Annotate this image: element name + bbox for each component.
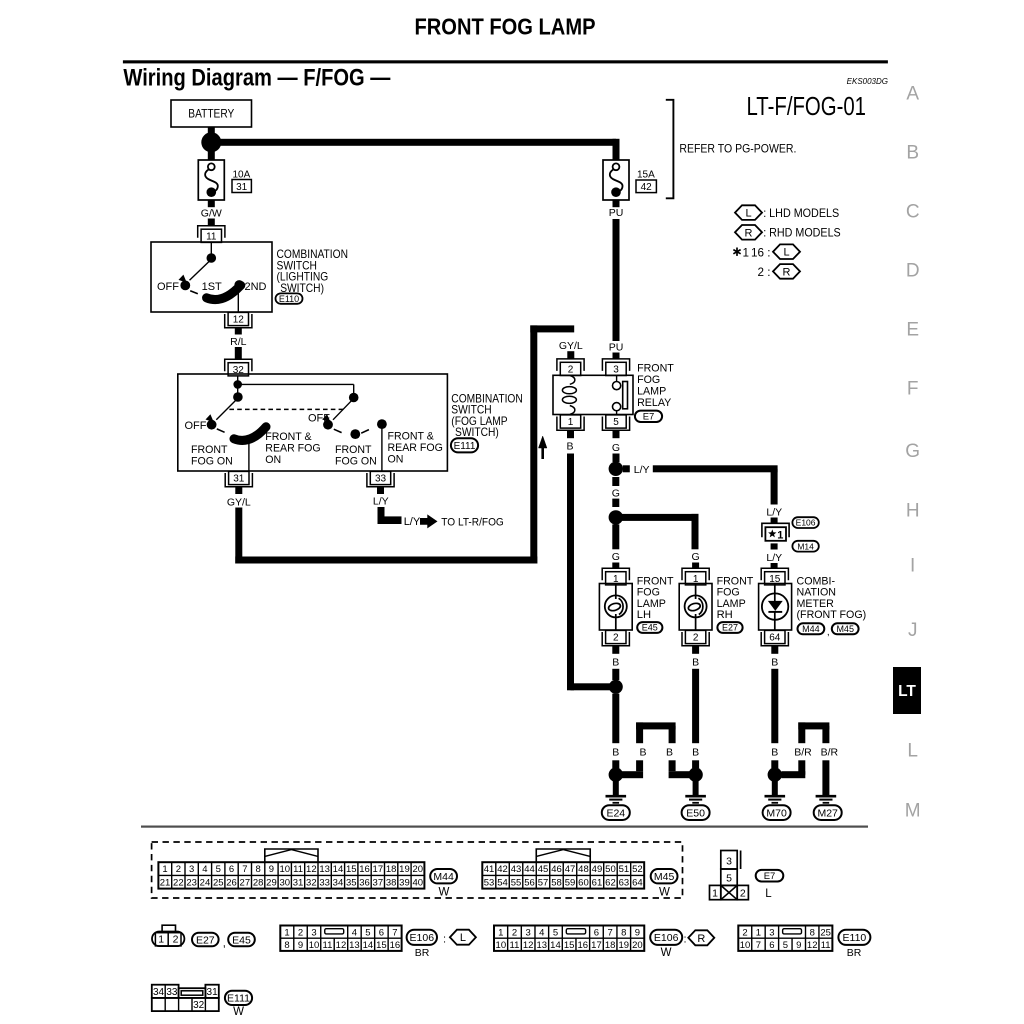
svg-text:3: 3 [769, 927, 774, 938]
svg-text:LH: LH [637, 609, 651, 621]
svg-text:REAR FOG: REAR FOG [388, 442, 443, 454]
svg-text:25: 25 [213, 877, 224, 888]
svg-text:6: 6 [229, 864, 234, 875]
svg-text:W: W [438, 886, 449, 898]
svg-text:7: 7 [242, 864, 247, 875]
svg-text:B: B [906, 142, 919, 163]
svg-text:B: B [639, 746, 646, 758]
svg-text:39: 39 [399, 877, 410, 888]
svg-text:2: 2 [742, 927, 747, 938]
svg-text:M45: M45 [654, 871, 675, 883]
svg-text:12: 12 [233, 315, 245, 326]
svg-text:NATION: NATION [797, 587, 837, 599]
svg-text:61: 61 [592, 877, 603, 888]
svg-text:42: 42 [497, 864, 508, 875]
svg-text:M27: M27 [817, 807, 838, 819]
svg-text:10: 10 [740, 940, 751, 951]
svg-text:E7: E7 [764, 871, 776, 882]
svg-text:OFF: OFF [157, 281, 179, 293]
svg-text:ON: ON [265, 454, 281, 466]
svg-text:L/Y: L/Y [634, 464, 650, 476]
svg-text:FRONT: FRONT [335, 444, 372, 456]
svg-text:34: 34 [153, 987, 165, 998]
svg-text:40: 40 [412, 877, 423, 888]
svg-text:4: 4 [539, 927, 544, 938]
svg-text:34: 34 [333, 877, 344, 888]
svg-text:E111: E111 [454, 441, 476, 452]
svg-text:2ND: 2ND [244, 281, 266, 293]
svg-text:L/Y: L/Y [766, 552, 782, 564]
svg-text:5: 5 [613, 417, 619, 428]
svg-text:7: 7 [392, 927, 397, 938]
svg-text:LT: LT [898, 683, 916, 700]
svg-text:E110: E110 [843, 932, 867, 944]
svg-text:(FRONT FOG): (FRONT FOG) [797, 609, 867, 621]
svg-text:3: 3 [613, 365, 619, 376]
svg-text:B: B [666, 746, 673, 758]
svg-text:D: D [906, 260, 920, 281]
svg-text:G: G [692, 551, 700, 563]
svg-text:2: 2 [298, 927, 303, 938]
svg-text:B: B [771, 746, 778, 758]
svg-text:B: B [612, 657, 619, 669]
svg-text:26: 26 [226, 877, 237, 888]
svg-text:L: L [765, 888, 772, 900]
svg-text:B: B [566, 441, 573, 453]
svg-text:1: 1 [158, 934, 164, 946]
svg-text:FOG: FOG [717, 587, 740, 599]
svg-text:4: 4 [202, 864, 207, 875]
svg-text:57: 57 [538, 877, 549, 888]
svg-text:54: 54 [497, 877, 508, 888]
svg-text:43: 43 [511, 864, 522, 875]
svg-text:3: 3 [189, 864, 194, 875]
svg-text:45: 45 [538, 864, 549, 875]
svg-text:51: 51 [619, 864, 630, 875]
svg-text:31: 31 [236, 182, 248, 193]
svg-text:L/Y: L/Y [373, 496, 389, 508]
svg-text:E110: E110 [279, 294, 299, 304]
svg-text:15: 15 [564, 940, 575, 951]
svg-text:W: W [661, 947, 672, 959]
svg-text:B: B [771, 657, 778, 669]
svg-text:55: 55 [511, 877, 522, 888]
svg-text:FRONT: FRONT [637, 363, 674, 375]
svg-text:16: 16 [578, 940, 589, 951]
svg-text:M14: M14 [797, 541, 814, 551]
svg-text:G/W: G/W [201, 207, 222, 219]
svg-text:1ST: 1ST [202, 281, 222, 293]
svg-text:49: 49 [592, 864, 603, 875]
svg-text:15: 15 [376, 940, 387, 951]
svg-text:12: 12 [306, 864, 317, 875]
svg-text:33: 33 [375, 474, 387, 485]
svg-text:1: 1 [568, 417, 574, 428]
svg-text:LAMP: LAMP [637, 386, 666, 398]
svg-text:1: 1 [743, 246, 750, 259]
svg-text:BR: BR [415, 947, 430, 959]
svg-text:L/Y: L/Y [404, 516, 421, 528]
svg-text:37: 37 [373, 877, 384, 888]
svg-text:TO LT-R/FOG: TO LT-R/FOG [441, 516, 504, 528]
svg-text:E27: E27 [722, 623, 738, 633]
svg-text:16 :: 16 : [751, 246, 771, 259]
svg-text:,: , [223, 937, 226, 949]
svg-text:3: 3 [311, 927, 316, 938]
svg-text:1: 1 [777, 529, 783, 541]
svg-text:FOG: FOG [637, 587, 660, 599]
svg-text:10: 10 [496, 940, 507, 951]
svg-text:B: B [692, 657, 699, 669]
svg-text:BR: BR [847, 947, 862, 959]
svg-text:15: 15 [346, 864, 357, 875]
svg-text:38: 38 [386, 877, 397, 888]
svg-text:9: 9 [298, 940, 303, 951]
svg-text::: : [684, 933, 687, 945]
svg-text:2: 2 [512, 927, 517, 938]
svg-text:10: 10 [309, 940, 320, 951]
svg-text:REFER TO PG-POWER.: REFER TO PG-POWER. [679, 143, 796, 156]
svg-text:15A: 15A [637, 170, 655, 181]
svg-text:FRONT &: FRONT & [265, 431, 311, 443]
svg-text:FRONT: FRONT [717, 576, 754, 588]
svg-text:B: B [612, 746, 619, 758]
svg-text:14: 14 [333, 864, 344, 875]
svg-text:G: G [612, 442, 620, 454]
svg-text:63: 63 [619, 877, 630, 888]
svg-text:E7: E7 [643, 412, 655, 423]
svg-text:36: 36 [359, 877, 370, 888]
svg-text:L/Y: L/Y [766, 506, 782, 518]
svg-text:10: 10 [279, 864, 290, 875]
svg-text:M44: M44 [433, 871, 454, 883]
svg-text:17: 17 [373, 864, 384, 875]
svg-text:2: 2 [693, 633, 699, 644]
svg-text:18: 18 [605, 940, 616, 951]
svg-text:R: R [783, 266, 791, 278]
svg-text:12: 12 [523, 940, 534, 951]
svg-text:METER: METER [797, 598, 834, 610]
svg-text:FRONT &: FRONT & [388, 431, 434, 443]
svg-text:SWITCH): SWITCH) [455, 426, 499, 439]
svg-text:LAMP: LAMP [717, 598, 746, 610]
svg-text:16: 16 [390, 940, 401, 951]
svg-text:32: 32 [193, 1000, 205, 1011]
svg-text:22: 22 [173, 877, 184, 888]
svg-text:7: 7 [607, 927, 612, 938]
svg-text:: LHD MODELS: : LHD MODELS [763, 207, 839, 220]
svg-text:E106: E106 [410, 932, 435, 944]
svg-text:11: 11 [821, 940, 831, 951]
svg-text:13: 13 [537, 940, 548, 951]
svg-text:47: 47 [565, 864, 576, 875]
svg-text:11: 11 [293, 864, 303, 875]
svg-text:C: C [906, 201, 920, 222]
svg-text:GY/L: GY/L [559, 340, 583, 352]
svg-text:6: 6 [769, 940, 774, 951]
svg-text:L: L [745, 208, 751, 220]
svg-text:G: G [612, 487, 620, 499]
svg-text:,: , [827, 627, 830, 638]
svg-text:56: 56 [524, 877, 535, 888]
svg-text:2: 2 [173, 934, 179, 946]
svg-text:BATTERY: BATTERY [188, 108, 234, 120]
svg-text:59: 59 [565, 877, 576, 888]
svg-text:64: 64 [632, 877, 643, 888]
svg-text:30: 30 [279, 877, 290, 888]
svg-text:R: R [745, 227, 753, 239]
svg-text:E45: E45 [232, 934, 251, 946]
svg-text:GY/L: GY/L [227, 497, 251, 509]
svg-text:18: 18 [386, 864, 397, 875]
svg-text:2: 2 [176, 864, 181, 875]
svg-text:H: H [906, 500, 920, 521]
svg-text:62: 62 [605, 877, 616, 888]
svg-text:1: 1 [284, 927, 289, 938]
svg-text:M: M [905, 801, 921, 822]
svg-text:PU: PU [609, 341, 624, 353]
svg-text:1: 1 [162, 864, 167, 875]
svg-text:24: 24 [200, 877, 211, 888]
svg-text:REAR FOG: REAR FOG [265, 443, 320, 455]
svg-text:FOG ON: FOG ON [335, 455, 377, 467]
svg-text:44: 44 [524, 864, 535, 875]
svg-text:M45: M45 [836, 624, 854, 634]
svg-text:28: 28 [253, 877, 264, 888]
svg-text:FRONT FOG LAMP: FRONT FOG LAMP [415, 14, 596, 40]
svg-text:14: 14 [363, 940, 374, 951]
svg-text:13: 13 [319, 864, 330, 875]
svg-text:52: 52 [632, 864, 643, 875]
svg-text:PU: PU [609, 207, 624, 219]
svg-text:F: F [907, 379, 919, 400]
svg-text:27: 27 [240, 877, 251, 888]
svg-text:RELAY: RELAY [637, 397, 672, 409]
svg-text:E: E [906, 320, 919, 341]
svg-text:16: 16 [359, 864, 370, 875]
svg-text:W: W [659, 886, 670, 898]
svg-text:8: 8 [810, 927, 815, 938]
svg-text:I: I [910, 556, 915, 577]
svg-text:8: 8 [621, 927, 626, 938]
svg-text:60: 60 [578, 877, 589, 888]
svg-text:11: 11 [206, 231, 217, 242]
svg-text:8: 8 [256, 864, 261, 875]
svg-text:LAMP: LAMP [637, 598, 666, 610]
svg-text:20: 20 [632, 940, 643, 951]
svg-text:8: 8 [284, 940, 289, 951]
svg-text:B/R: B/R [794, 746, 812, 758]
svg-text:4: 4 [352, 927, 357, 938]
svg-text:J: J [908, 620, 918, 641]
svg-text:5: 5 [783, 940, 788, 951]
svg-text:1: 1 [498, 927, 503, 938]
svg-text:5: 5 [553, 927, 558, 938]
svg-text:FRONT: FRONT [191, 444, 228, 456]
svg-text:31: 31 [207, 987, 219, 998]
svg-text:Wiring Diagram — F/FOG —: Wiring Diagram — F/FOG — [123, 64, 390, 91]
svg-text:EKS003DG: EKS003DG [847, 77, 888, 86]
svg-text:2: 2 [613, 633, 619, 644]
svg-text:B: B [692, 746, 699, 758]
svg-text:32: 32 [306, 877, 317, 888]
svg-text:3: 3 [526, 927, 531, 938]
svg-text:1: 1 [756, 927, 761, 938]
svg-text:FOG: FOG [637, 374, 660, 386]
svg-text:E50: E50 [686, 807, 705, 819]
svg-text:RH: RH [717, 609, 733, 621]
svg-text:12: 12 [807, 940, 818, 951]
svg-text:11: 11 [323, 940, 333, 951]
svg-text:13: 13 [349, 940, 360, 951]
svg-text:25: 25 [820, 927, 831, 938]
svg-text:5: 5 [365, 927, 370, 938]
svg-text:12: 12 [336, 940, 347, 951]
svg-text:COMBI-: COMBI- [797, 576, 836, 588]
svg-text:58: 58 [551, 877, 562, 888]
svg-text:11: 11 [510, 940, 520, 951]
svg-text:A: A [906, 83, 919, 104]
svg-text:E106: E106 [654, 932, 679, 944]
svg-text:17: 17 [591, 940, 602, 951]
svg-text:R/L: R/L [230, 336, 247, 348]
svg-text:31: 31 [293, 877, 304, 888]
svg-text:ON: ON [388, 454, 404, 466]
svg-text:35: 35 [346, 877, 357, 888]
svg-text:23: 23 [186, 877, 197, 888]
svg-text:E106: E106 [796, 518, 816, 528]
svg-text:R: R [697, 933, 705, 945]
svg-text:W: W [233, 1006, 244, 1018]
svg-text:9: 9 [635, 927, 640, 938]
svg-text:53: 53 [484, 877, 495, 888]
svg-text:: RHD MODELS: : RHD MODELS [763, 227, 841, 240]
svg-text:33: 33 [166, 987, 178, 998]
svg-text:E45: E45 [642, 623, 658, 633]
svg-text:7: 7 [756, 940, 761, 951]
svg-text:6: 6 [379, 927, 384, 938]
svg-text:E27: E27 [196, 934, 215, 946]
svg-text:48: 48 [578, 864, 589, 875]
svg-text:64: 64 [769, 633, 781, 644]
svg-text:31: 31 [233, 474, 245, 485]
svg-text:3: 3 [726, 855, 732, 867]
svg-text:19: 19 [618, 940, 629, 951]
svg-text:29: 29 [266, 877, 277, 888]
svg-text:46: 46 [551, 864, 562, 875]
svg-text:G: G [905, 441, 920, 462]
svg-text:9: 9 [796, 940, 801, 951]
svg-text:2 :: 2 : [758, 266, 771, 279]
svg-text:21: 21 [160, 877, 171, 888]
svg-text:50: 50 [605, 864, 616, 875]
svg-text:5: 5 [726, 873, 732, 885]
svg-text::: : [443, 933, 446, 945]
svg-text:OFF: OFF [185, 420, 207, 432]
svg-text:M44: M44 [802, 624, 820, 634]
svg-text:2: 2 [568, 365, 574, 376]
svg-text:6: 6 [594, 927, 599, 938]
svg-text:42: 42 [641, 182, 653, 193]
svg-text:20: 20 [412, 864, 423, 875]
svg-text:41: 41 [484, 864, 495, 875]
svg-text:33: 33 [319, 877, 330, 888]
svg-text:LT-F/FOG-01: LT-F/FOG-01 [747, 91, 867, 121]
svg-text:1: 1 [712, 888, 718, 900]
svg-text:G: G [612, 551, 620, 563]
svg-text:9: 9 [269, 864, 274, 875]
svg-text:E24: E24 [606, 807, 625, 819]
svg-text:19: 19 [399, 864, 410, 875]
svg-text:FRONT: FRONT [637, 576, 674, 588]
svg-text:OFF: OFF [308, 412, 330, 424]
svg-text:FOG ON: FOG ON [191, 455, 233, 467]
svg-text:L: L [460, 932, 466, 944]
svg-text:L: L [783, 247, 789, 259]
svg-text:14: 14 [550, 940, 561, 951]
svg-text:E111: E111 [227, 993, 250, 1005]
svg-text:5: 5 [216, 864, 221, 875]
svg-text:B/R: B/R [821, 746, 839, 758]
svg-text:L: L [907, 740, 918, 761]
svg-text:M70: M70 [766, 807, 787, 819]
svg-text:2: 2 [740, 888, 746, 900]
